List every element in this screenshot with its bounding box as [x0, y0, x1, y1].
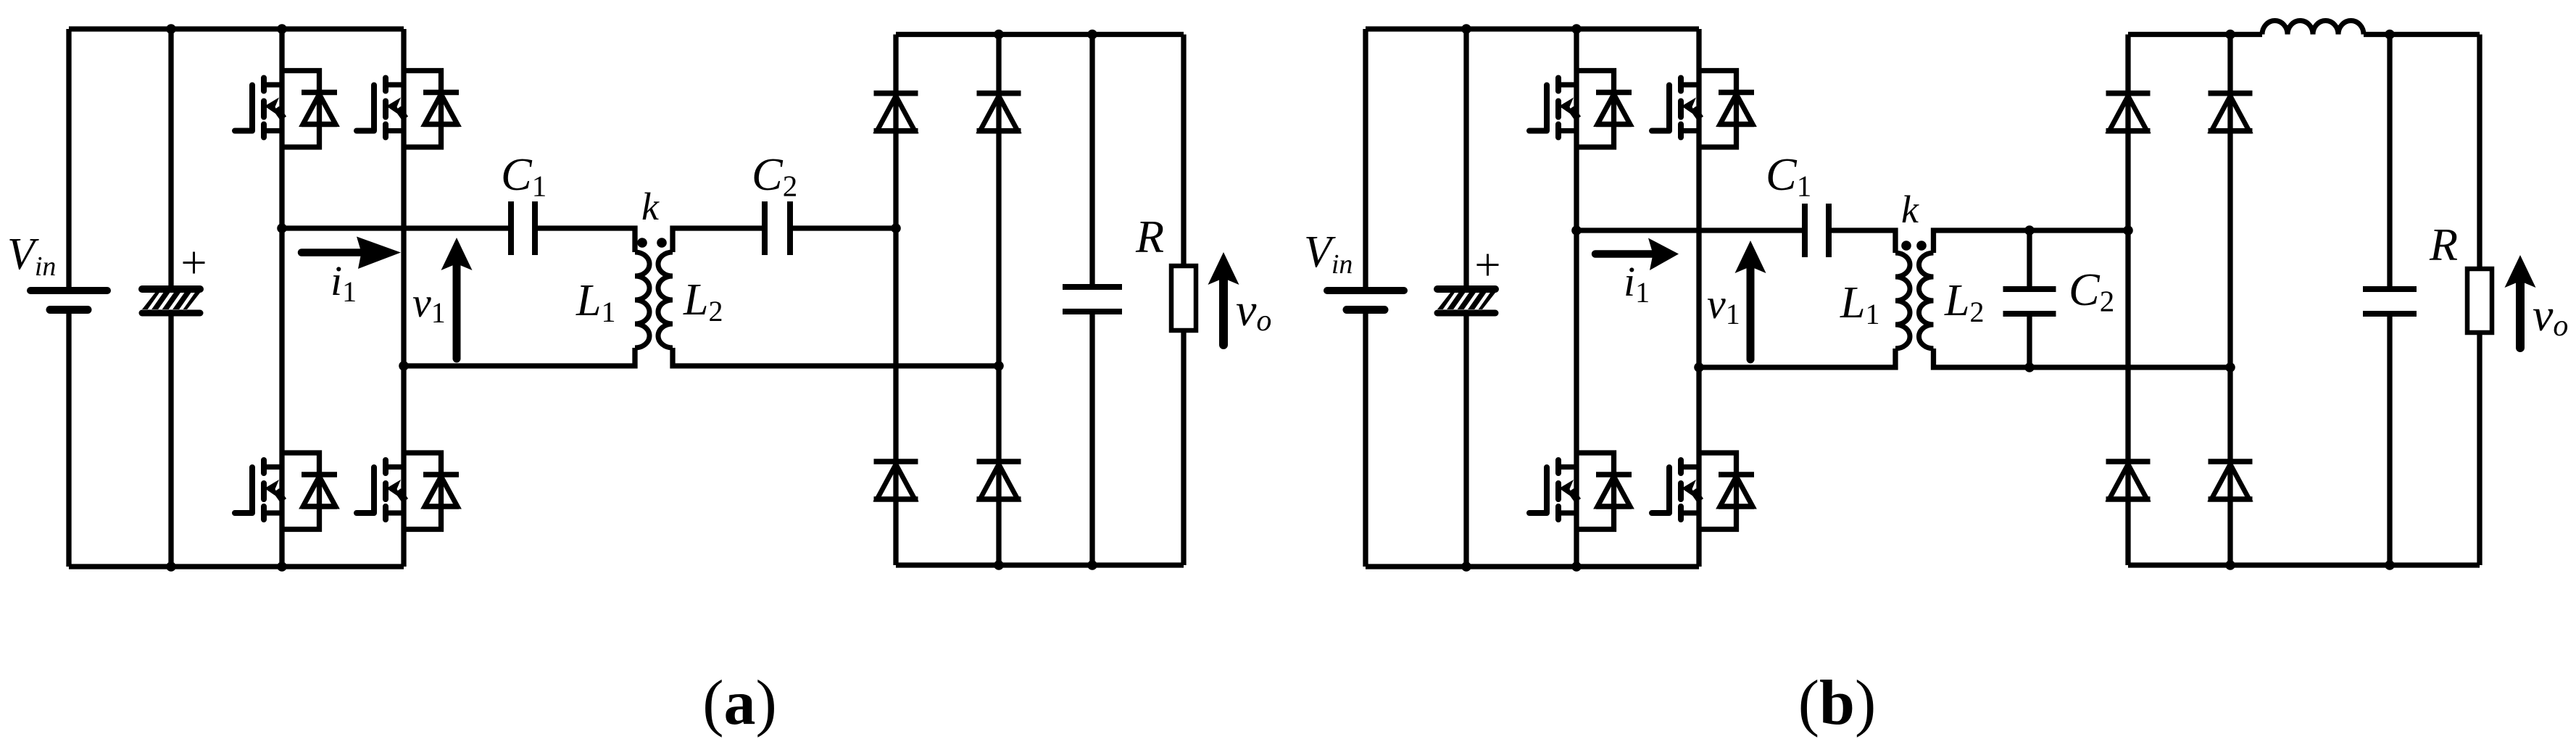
- wire rectifier top bus left (b): [2128, 32, 2262, 37]
- wire bridge leg 2 rail (b): [1696, 29, 1701, 567]
- wire rectifier top bus right (b): [2364, 32, 2480, 37]
- junction secondary bottom / rectifier (a): [994, 361, 1004, 371]
- diode D1 (a): [874, 93, 918, 131]
- wire load branch lower (a): [1181, 330, 1186, 565]
- arrow v1 voltage (a): [441, 238, 473, 359]
- svg-text:(a): (a): [702, 668, 777, 738]
- transistor Q1 (MOSFET with body diode): [235, 71, 337, 148]
- wire rectifier right leg (b): [2227, 35, 2232, 566]
- svg-text:(b): (b): [1798, 668, 1877, 738]
- wire rectifier bottom bus (b): [2128, 562, 2480, 567]
- junction top bus / C_in (a): [166, 24, 176, 34]
- diode D6 (b): [2209, 93, 2253, 131]
- wire rectifier left leg (b): [2125, 35, 2130, 566]
- junction C2 bottom node (b): [2024, 362, 2035, 372]
- svg-text:k: k: [641, 185, 660, 228]
- junction top bus / leg1 (b): [1571, 24, 1582, 34]
- battery V_in (a): [30, 291, 107, 310]
- transistor Q4 (MOSFET with body diode): [357, 453, 459, 530]
- battery V_in (b): [1327, 291, 1404, 310]
- wire bridge leg 2 rail (a): [401, 29, 406, 567]
- svg-text:R: R: [1135, 211, 1164, 262]
- transistor Q8 (MOSFET with body diode): [1652, 453, 1754, 530]
- junction bottom bus / leg1 (a): [277, 562, 287, 572]
- wire top bus (b): [1366, 26, 1699, 31]
- capacitor C2 (a) plates: [765, 201, 790, 255]
- wire top bus (a): [69, 26, 404, 31]
- wire V_in branch lower (a): [66, 313, 71, 567]
- transistor Q3 (MOSFET with body diode): [235, 453, 337, 530]
- wire input cap branch upper (a): [168, 29, 173, 289]
- wire rectifier bottom bus (a): [896, 562, 1184, 567]
- wire V_in branch upper (a): [66, 29, 71, 288]
- capacitor C1 (a) plates: [511, 201, 535, 255]
- wire load branch lower (b): [2477, 333, 2482, 565]
- junction top bus / C_in (b): [1461, 24, 1471, 34]
- wire rectifier left leg (a): [893, 35, 898, 566]
- resistor R load (b): [2467, 269, 2492, 333]
- capacitor C_in (b) (polarized input cap): [1437, 289, 1500, 313]
- wire output cap branch (a): [1089, 35, 1094, 566]
- capacitor C2 (b) plates: [2003, 289, 2056, 314]
- wire secondary bottom wire (a): [673, 348, 999, 366]
- wire C1 to L1 wire (a): [538, 228, 635, 252]
- wire bridge leg 1 rail (a): [279, 29, 284, 567]
- wire primary bottom wire (b): [1699, 349, 1895, 367]
- arrow v_o voltage (a): [1208, 252, 1239, 345]
- wire primary bottom wire (a): [404, 348, 635, 366]
- junction top bus / leg1 (a): [277, 24, 287, 34]
- wire L2 top lead to C2 (a): [673, 228, 762, 252]
- junction leg2 mid node (a): [399, 361, 409, 371]
- inductor L2 (a) winding: [658, 252, 673, 348]
- capacitor C_o (b) plates: [2363, 289, 2417, 314]
- arrow v_o voltage (b): [2505, 255, 2536, 348]
- wire V_in branch lower (b): [1363, 313, 1368, 567]
- junction rect bottom bus / C_o (a): [1087, 560, 1097, 570]
- wire input cap branch lower (b): [1463, 313, 1468, 567]
- wire load branch upper (a): [1181, 35, 1186, 267]
- capacitor C_in (a) (polarized input cap): [142, 289, 204, 313]
- wire bridge leg 1 rail (b): [1574, 29, 1579, 567]
- junction leg1 mid node (b): [1571, 225, 1582, 235]
- wire secondary bottom wire (b): [1934, 349, 2231, 367]
- label + polarity (b): [1477, 254, 1499, 276]
- inductor Lf filter (b) winding: [2262, 21, 2364, 35]
- junction secondary top / rectifier (b): [2123, 225, 2133, 235]
- inductor L1 (b) winding: [1895, 253, 1910, 349]
- junction secondary top / rectifier (a): [891, 223, 901, 233]
- inductor L1 (a) winding: [635, 252, 649, 348]
- wire rectifier right leg (a): [996, 35, 1001, 566]
- junction transformer polarity dot L1 (a): [637, 238, 647, 248]
- junction rect top bus / C_o (b): [2385, 30, 2395, 40]
- junction rect top bus / C_o (a): [1087, 30, 1097, 40]
- diode D3 (a): [874, 462, 918, 499]
- junction C2 top node (b): [2024, 225, 2035, 235]
- wire C1 to L1 wire (b): [1832, 230, 1895, 253]
- label + polarity (a): [183, 252, 205, 274]
- transistor Q6 (MOSFET with body diode): [1652, 71, 1754, 148]
- junction rect bottom bus / C_o (b): [2385, 560, 2395, 570]
- wire primary top wire to C1 (b): [1576, 228, 1802, 233]
- inductor L2 (b) winding: [1919, 253, 1934, 349]
- svg-text:k: k: [1901, 188, 1919, 231]
- resistor R load (a): [1171, 266, 1196, 330]
- svg-text:R: R: [2429, 219, 2458, 270]
- wire L2 top lead / wire to rectifier (b): [1934, 230, 2129, 253]
- diode D8 (b): [2209, 462, 2253, 499]
- arrow i1 current (a): [302, 237, 401, 270]
- junction transformer polarity dot L2 (b): [1916, 241, 1927, 251]
- junction bottom bus / C_in (b): [1461, 562, 1471, 572]
- transistor Q7 (MOSFET with body diode): [1529, 453, 1632, 530]
- wire load branch upper (b): [2477, 35, 2482, 270]
- transistor Q2 (MOSFET with body diode): [357, 71, 459, 148]
- wire C2 to rectifier wire (a): [793, 225, 896, 230]
- arrow v1 voltage (b): [1735, 241, 1766, 359]
- wire input cap branch upper (b): [1463, 29, 1468, 289]
- wire rectifier top bus (a): [896, 32, 1184, 37]
- wire input cap branch lower (a): [168, 313, 173, 567]
- junction rect bottom bus / leg2 (b): [2225, 560, 2235, 570]
- junction leg1 mid node (a): [277, 223, 287, 233]
- junction bottom bus / leg1 (b): [1571, 562, 1582, 572]
- diode D5 (b): [2106, 93, 2151, 131]
- junction rect top bus / leg2 (a): [994, 30, 1004, 40]
- arrow i1 current (b): [1595, 238, 1679, 271]
- transistor Q5 (MOSFET with body diode): [1529, 71, 1632, 148]
- wire primary top wire to C1 (a): [282, 225, 508, 230]
- diode D2 (a): [977, 93, 1021, 131]
- wire C2 branch upper (b): [2027, 230, 2032, 286]
- junction transformer polarity dot L1 (b): [1901, 241, 1911, 251]
- junction rect top bus / leg2 (b): [2225, 30, 2235, 40]
- wire bottom bus (a): [69, 564, 404, 569]
- capacitor C1 (b) plates: [1805, 204, 1829, 257]
- wire bottom bus (b): [1366, 564, 1699, 569]
- junction leg2 mid node (b): [1694, 362, 1704, 372]
- junction transformer polarity dot L2 (a): [657, 238, 667, 248]
- wire C2 branch lower (b): [2027, 317, 2032, 367]
- junction bottom bus / C_in (a): [166, 562, 176, 572]
- diode D4 (a): [977, 462, 1021, 499]
- junction secondary bottom / rectifier (b): [2225, 362, 2235, 372]
- capacitor C_o (a) plates: [1063, 287, 1122, 312]
- diode D7 (b): [2106, 462, 2151, 499]
- wire output cap branch (b): [2387, 35, 2392, 566]
- wire V_in branch upper (b): [1363, 29, 1368, 288]
- junction rect bottom bus / leg2 (a): [994, 560, 1004, 570]
